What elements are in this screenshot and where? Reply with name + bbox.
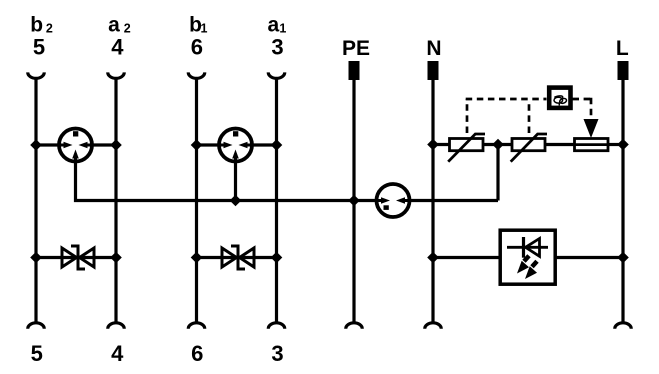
wire arrester box to L	[555, 256, 623, 259]
terminal 5 bottom	[28, 323, 45, 366]
terminal 3 bottom	[268, 323, 285, 366]
svg-text:4: 4	[111, 341, 124, 366]
svg-text:5: 5	[31, 341, 43, 366]
node PE-bus	[348, 195, 360, 207]
node N-varistor	[427, 139, 439, 151]
node a1-D2	[271, 252, 283, 264]
disconnect arrow onto fuse	[584, 119, 599, 138]
wire b1 line	[195, 78, 198, 322]
svg-text:5: 5	[33, 34, 45, 59]
terminal N	[426, 37, 441, 80]
svg-text:b: b	[30, 13, 43, 36]
wire a1 line	[275, 78, 278, 322]
node GDT2-bus	[230, 195, 242, 207]
wire earth bus	[76, 161, 389, 201]
svg-text:3: 3	[271, 34, 283, 59]
terminal a1/3 top	[268, 13, 287, 78]
terminal b1/6 top	[188, 13, 207, 78]
svg-text:1: 1	[279, 22, 286, 36]
terminal PE	[342, 37, 370, 80]
node b2-GDT1	[30, 139, 42, 151]
wire GDT1 row b2-a2	[36, 143, 71, 146]
wire N line	[431, 70, 434, 322]
wire diode row 2	[197, 256, 277, 259]
wire varistor link	[483, 143, 512, 146]
svg-text:1: 1	[201, 22, 208, 36]
terminal b2/5 top	[28, 13, 53, 78]
wire varistor2 to fuse	[545, 143, 575, 146]
svg-text:3: 3	[271, 341, 283, 366]
wire diode row 1	[36, 256, 116, 259]
node a2-GDT1	[110, 139, 122, 151]
node N-arrester	[427, 252, 439, 264]
svg-text:4: 4	[111, 34, 124, 59]
node a2-D1	[110, 252, 122, 264]
svg-text:2: 2	[46, 22, 53, 36]
terminal 6 bottom	[188, 323, 205, 366]
node b1-D2	[191, 252, 203, 264]
svg-text:2: 2	[124, 22, 131, 36]
wire b2 line	[34, 78, 37, 322]
terminal L bottom	[615, 323, 632, 329]
wire N to varistor	[433, 143, 450, 146]
gas discharge tube F1 (b2-a2, 3-electrode)	[59, 129, 92, 162]
terminal 4 bottom	[108, 323, 125, 366]
svg-text:PE: PE	[342, 37, 370, 60]
gas discharge tube F2 (b1-a1, 3-electrode)	[219, 129, 252, 162]
node L-arrester	[617, 252, 629, 264]
node b2-D1	[30, 252, 42, 264]
gas discharge tube F3 (PE-N/L midpoint, 2-electrode)	[377, 184, 410, 217]
terminal PE bottom	[346, 323, 363, 329]
fuse F4	[575, 139, 609, 151]
svg-text:6: 6	[191, 341, 203, 366]
node b1-GDT2	[191, 139, 203, 151]
wire a2 line	[114, 78, 117, 322]
varistor RV2	[511, 134, 547, 162]
node varistor midpoint	[492, 139, 504, 151]
node a1-GDT2	[271, 139, 283, 151]
suppressor diode pair D2 (b1-a1)	[222, 246, 254, 269]
thermal disconnect monitor (dashed linkage)	[466, 98, 591, 133]
svg-text:a: a	[268, 13, 280, 36]
terminal L	[616, 37, 629, 80]
svg-text:6: 6	[191, 34, 203, 59]
node L-fuse	[617, 139, 629, 151]
wire N to arrester box	[433, 256, 500, 259]
terminal N bottom	[425, 323, 442, 329]
suppressor diode pair D1 (b2-a2)	[62, 246, 94, 269]
svg-text:N: N	[426, 37, 441, 60]
surge arrester box (diode + spark)	[500, 230, 555, 284]
wire fuse to L	[608, 143, 623, 146]
varistor RV1	[448, 134, 485, 162]
wire varistor midpoint drop	[496, 145, 499, 201]
terminal a2/4 top	[108, 13, 131, 78]
wire L line	[621, 70, 624, 322]
wire GDT2 row b1-a1	[197, 143, 232, 146]
svg-text:a: a	[108, 13, 120, 36]
wire PE line	[352, 70, 355, 322]
thermal sensor box (theta)	[549, 88, 570, 108]
svg-text:L: L	[616, 37, 629, 60]
